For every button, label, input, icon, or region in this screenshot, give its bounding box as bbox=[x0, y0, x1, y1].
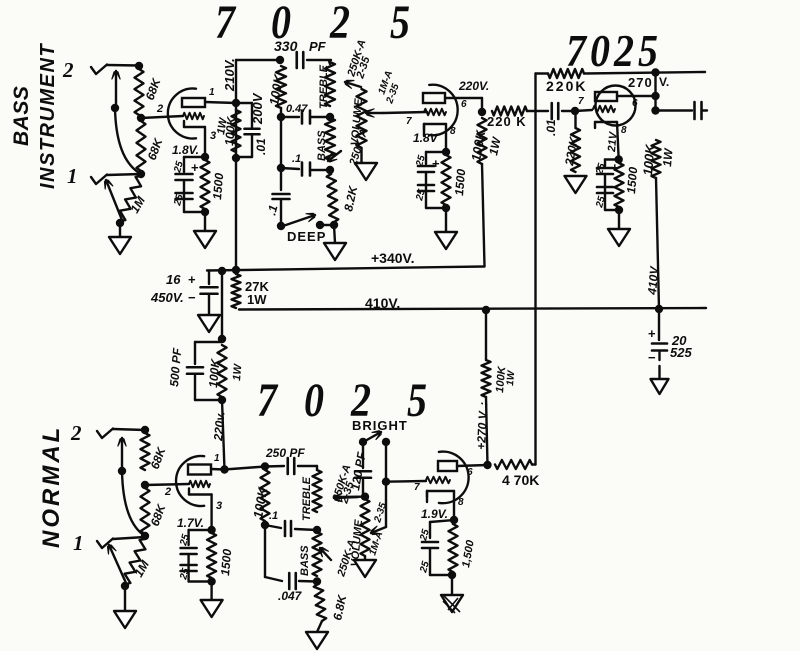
svg-text:BASS: BASS bbox=[316, 130, 328, 161]
svg-text:1500: 1500 bbox=[218, 548, 234, 576]
svg-text:1500: 1500 bbox=[452, 168, 468, 196]
svg-text:5: 5 bbox=[407, 374, 427, 427]
svg-text:2: 2 bbox=[62, 58, 74, 82]
svg-text:.01: .01 bbox=[254, 138, 268, 155]
svg-text:.1: .1 bbox=[269, 510, 278, 522]
svg-text:8: 8 bbox=[621, 125, 627, 136]
svg-text:270: 270 bbox=[628, 75, 653, 90]
svg-text:1.8V: 1.8V bbox=[413, 131, 439, 145]
svg-text:1.8V.: 1.8V. bbox=[172, 143, 199, 157]
svg-text:4 70K: 4 70K bbox=[502, 472, 539, 488]
svg-text:.1: .1 bbox=[292, 153, 301, 165]
svg-text:220V.: 220V. bbox=[458, 79, 489, 93]
svg-text:+: + bbox=[191, 160, 199, 175]
svg-text:TREBLE: TREBLE bbox=[318, 64, 330, 109]
svg-text:6: 6 bbox=[632, 98, 638, 109]
svg-text:NORMAL: NORMAL bbox=[38, 425, 65, 548]
svg-text:7: 7 bbox=[215, 0, 237, 49]
svg-text:2: 2 bbox=[329, 0, 350, 49]
svg-text:16: 16 bbox=[166, 272, 181, 287]
svg-text:1W: 1W bbox=[247, 292, 267, 307]
svg-text:1500: 1500 bbox=[624, 166, 640, 194]
svg-text:.01: .01 bbox=[544, 119, 558, 136]
svg-text:0.47: 0.47 bbox=[286, 103, 308, 115]
svg-text:0: 0 bbox=[304, 374, 324, 427]
svg-text:.047: .047 bbox=[278, 589, 303, 603]
svg-text:250 PF: 250 PF bbox=[265, 446, 305, 460]
svg-text:100K: 100K bbox=[206, 357, 223, 388]
svg-text:410V.: 410V. bbox=[365, 295, 400, 311]
svg-text:INSTRUMENT: INSTRUMENT bbox=[37, 43, 59, 189]
svg-text:8: 8 bbox=[450, 126, 456, 137]
svg-text:BASS: BASS bbox=[10, 86, 33, 146]
svg-text:+340V.: +340V. bbox=[371, 250, 414, 266]
svg-text:100K: 100K bbox=[640, 142, 658, 176]
svg-text:7025: 7025 bbox=[566, 27, 662, 77]
svg-text:21V: 21V bbox=[606, 130, 620, 153]
svg-text:2: 2 bbox=[164, 486, 171, 498]
svg-text:V.: V. bbox=[659, 75, 669, 89]
svg-text:8: 8 bbox=[458, 497, 464, 508]
svg-text:220K: 220K bbox=[546, 78, 587, 94]
svg-text:1W: 1W bbox=[231, 362, 245, 381]
svg-text:525: 525 bbox=[670, 345, 692, 360]
svg-text:220v.: 220v. bbox=[211, 411, 228, 442]
svg-text:PF: PF bbox=[309, 39, 327, 54]
svg-text:DEEP: DEEP bbox=[287, 229, 326, 244]
svg-text:1: 1 bbox=[209, 87, 215, 98]
svg-text:+: + bbox=[432, 156, 440, 171]
svg-text:1.9V.: 1.9V. bbox=[421, 507, 448, 521]
svg-text:3: 3 bbox=[216, 500, 222, 512]
svg-text:6: 6 bbox=[461, 99, 467, 110]
svg-text:1W: 1W bbox=[505, 369, 517, 386]
svg-text:330: 330 bbox=[274, 38, 298, 54]
svg-text:210V.: 210V. bbox=[222, 58, 237, 92]
svg-text:6: 6 bbox=[467, 467, 473, 478]
svg-text:+: + bbox=[188, 272, 196, 287]
svg-text:220 K: 220 K bbox=[487, 114, 527, 129]
svg-text:−: − bbox=[188, 290, 196, 305]
svg-text:1.7V.: 1.7V. bbox=[177, 516, 204, 530]
svg-text:1: 1 bbox=[73, 531, 84, 555]
svg-text:7: 7 bbox=[578, 96, 584, 107]
svg-text:7: 7 bbox=[414, 482, 420, 493]
svg-text:2: 2 bbox=[156, 103, 163, 115]
svg-text:7: 7 bbox=[406, 116, 412, 127]
svg-text:7: 7 bbox=[257, 374, 279, 427]
svg-text:2: 2 bbox=[70, 421, 82, 445]
svg-text:+: + bbox=[648, 326, 656, 341]
svg-text:+270 V. :: +270 V. : bbox=[474, 402, 490, 451]
svg-text:410V: 410V bbox=[645, 265, 662, 296]
svg-text:−: − bbox=[648, 350, 656, 365]
svg-text:450V.: 450V. bbox=[150, 290, 184, 305]
svg-text:1: 1 bbox=[214, 453, 220, 464]
svg-text:5: 5 bbox=[390, 0, 410, 49]
svg-text:BASS: BASS bbox=[299, 545, 311, 576]
svg-text:1500: 1500 bbox=[210, 172, 226, 200]
svg-text:TREBLE: TREBLE bbox=[301, 476, 313, 521]
svg-text:1: 1 bbox=[67, 164, 78, 188]
svg-text:1W: 1W bbox=[660, 146, 676, 167]
svg-text:3: 3 bbox=[210, 130, 216, 142]
svg-text:200V: 200V bbox=[250, 92, 265, 125]
